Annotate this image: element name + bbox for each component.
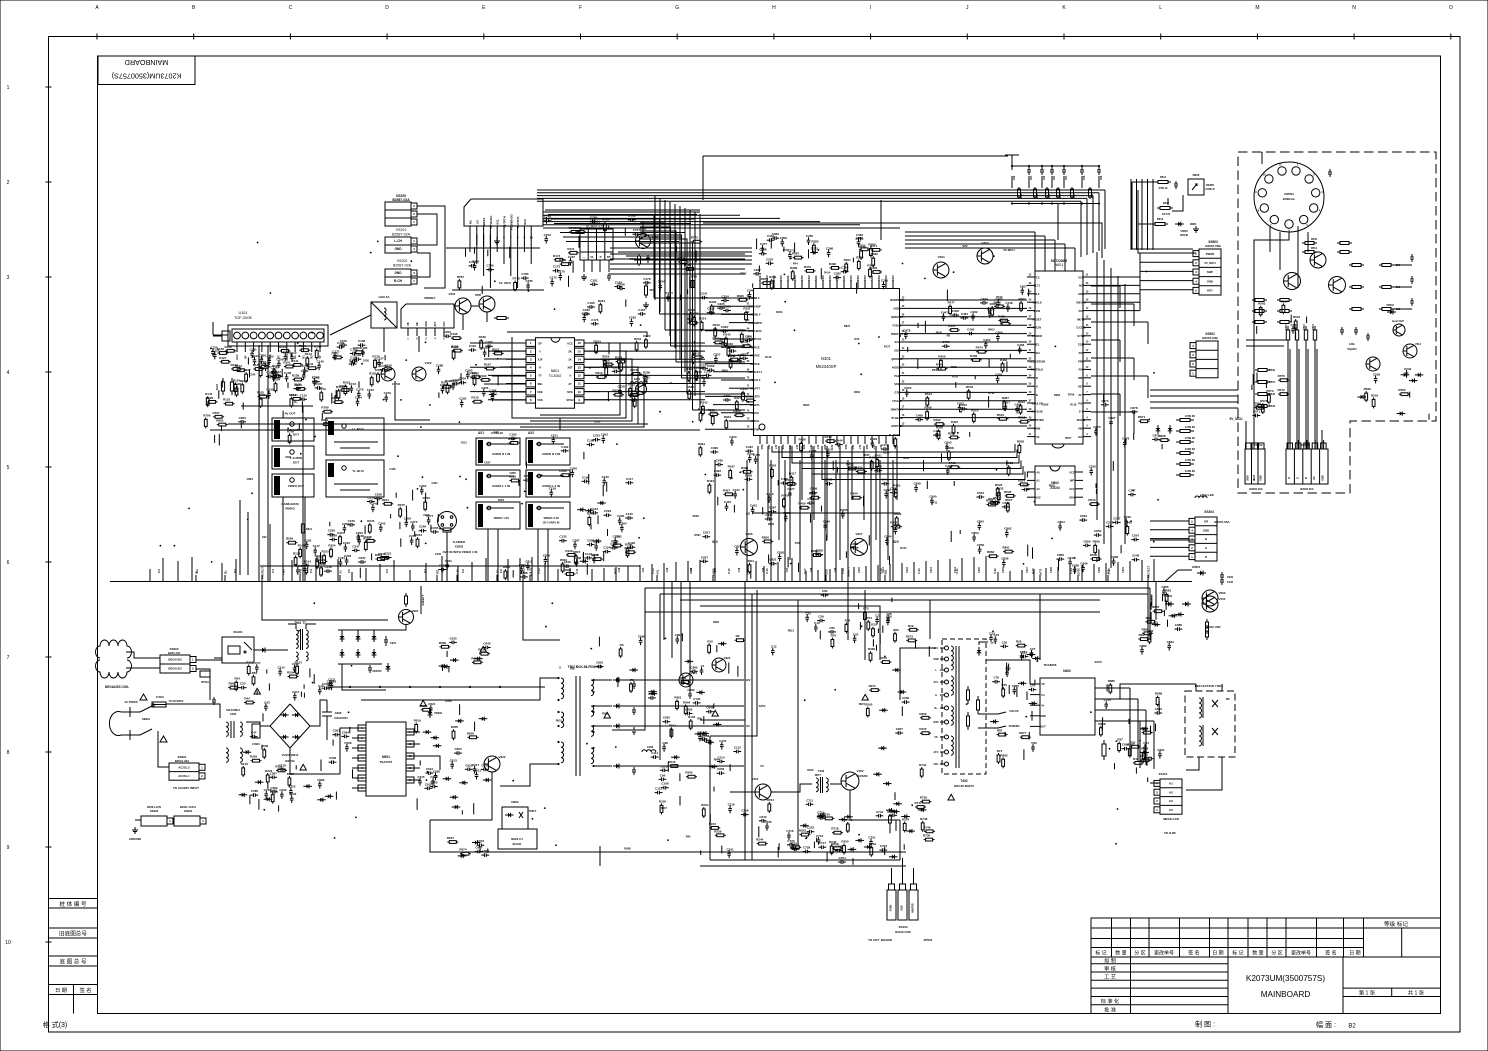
svg-text:C418: C418 [870, 437, 878, 441]
svg-text:TVXXXDF: TVXXXDF [749, 304, 761, 308]
capacitor C262 [421, 487, 423, 490]
wire [826, 535, 828, 542]
wire [946, 290, 948, 301]
svg-text:R474: R474 [976, 346, 984, 350]
svg-text:R821: R821 [306, 528, 313, 531]
svg-text:SYNC: SYNC [1077, 334, 1085, 338]
resistor R125 [258, 396, 260, 398]
svg-text:2: 2 [1156, 799, 1158, 803]
capacitor C615 [419, 778, 421, 781]
capacitor C402 [885, 491, 887, 494]
svg-text:C264: C264 [419, 525, 427, 529]
capacitor C723 [787, 844, 790, 846]
resistor R832 [891, 526, 893, 528]
wire [526, 462, 528, 469]
diode VD554 [1397, 413, 1406, 415]
diode VD624 [431, 737, 440, 739]
capacitor C601 [608, 273, 610, 276]
capacitor C1092 [561, 450, 564, 452]
capacitor C549 [1406, 370, 1408, 373]
resistor R512 [997, 418, 999, 420]
svg-text:R164: R164 [316, 555, 324, 559]
secondary output wires [660, 679, 744, 681]
svg-text:L902: L902 [230, 712, 237, 716]
wire [1133, 433, 1135, 440]
wire bottom loop2 [430, 820, 906, 852]
resistor R540 [1089, 503, 1091, 505]
transistor V511 [1310, 252, 1326, 268]
svg-text:P12: P12 [1035, 435, 1040, 439]
resistor R552 [1373, 397, 1375, 399]
wire [879, 635, 881, 645]
svg-text:C98: C98 [662, 741, 668, 745]
capacitor C911 [876, 617, 878, 620]
diode VD1010 [700, 732, 709, 734]
svg-text:HEAT: HEAT [1253, 474, 1256, 481]
svg-text:R158: R158 [364, 535, 372, 539]
svg-text:TO AC220V INPUT: TO AC220V INPUT [173, 786, 199, 790]
resistor R275 [399, 507, 401, 509]
capacitor C1082 [630, 319, 632, 322]
wire [261, 745, 263, 750]
svg-text:日 期: 日 期 [55, 987, 67, 994]
capacitor C510 [1329, 169, 1331, 172]
resistor R310 [745, 400, 747, 402]
svg-text:C617: C617 [472, 763, 480, 767]
resistor R748 [922, 821, 924, 823]
svg-text:11: 11 [578, 382, 582, 386]
wire [733, 505, 735, 513]
diode VD727 [864, 846, 873, 848]
resistor R407 [723, 493, 725, 495]
wire [682, 677, 684, 682]
svg-text:WP: WP [1070, 479, 1074, 483]
capacitor C1153 [807, 831, 810, 833]
svg-text:TO H.DF: TO H.DF [1164, 831, 1176, 835]
resistor R154 [305, 564, 307, 566]
capacitor C425 [807, 502, 810, 504]
svg-text:C499: C499 [914, 481, 922, 485]
svg-text:B+: B+ [934, 707, 938, 710]
svg-text:R123: R123 [223, 398, 231, 402]
svg-text:C113: C113 [660, 764, 667, 768]
svg-text:H.PULSE: H.PULSE [1031, 410, 1043, 414]
svg-text:C596: C596 [344, 741, 352, 745]
resistor R428 [800, 442, 802, 444]
capacitor C192 [461, 400, 463, 403]
svg-text:C603: C603 [455, 747, 463, 751]
svg-text:R832: R832 [890, 521, 898, 525]
svg-text:C626: C626 [433, 770, 441, 774]
diode VD706 [848, 848, 857, 850]
resistor R915 [872, 627, 874, 629]
svg-text:R74: R74 [997, 749, 1003, 753]
capacitor C401 [890, 492, 893, 494]
svg-text:R841: R841 [747, 559, 755, 563]
resistor R670 [447, 841, 449, 843]
svg-text:C47: C47 [251, 731, 257, 735]
svg-text:YL IN /O: YL IN /O [352, 469, 364, 473]
svg-text:C66: C66 [1100, 175, 1103, 180]
svg-text:C620: C620 [1227, 575, 1234, 579]
svg-text:DEFLECTION YOKE: DEFLECTION YOKE [1195, 684, 1223, 688]
wire [752, 283, 754, 287]
svg-text:R245: R245 [367, 519, 375, 523]
resistor R935 [1130, 746, 1132, 748]
wire [859, 622, 861, 630]
svg-text:R216: R216 [630, 368, 638, 372]
svg-text:C866: C866 [1111, 555, 1119, 559]
svg-text:L: L [192, 658, 194, 662]
resistor R127 [220, 361, 222, 363]
svg-text:AFC: AFC [934, 751, 939, 754]
svg-text:C377: C377 [760, 242, 768, 246]
svg-text:C303: C303 [723, 394, 731, 398]
capacitor C1117 [294, 693, 296, 696]
capacitor C251 [384, 557, 387, 559]
svg-text:R972: R972 [859, 702, 866, 706]
svg-text:VDD: VDD [787, 275, 790, 280]
capacitor C621 [430, 705, 432, 708]
svg-text:FSDUB: FSDUB [893, 323, 902, 327]
diode VD676 [458, 855, 467, 857]
svg-text:A25V: A25V [759, 704, 766, 708]
svg-text:R487: R487 [1002, 396, 1010, 400]
svg-text:R127: R127 [219, 356, 227, 360]
svg-text:R128: R128 [565, 549, 573, 553]
resistor R374 [805, 270, 807, 272]
svg-text:VIF: VIF [407, 322, 410, 326]
svg-text:YSFIHL: YSFIHL [750, 419, 760, 423]
capacitor C436 [715, 464, 718, 466]
resistor R342 [725, 336, 727, 338]
svg-text:REMO: REMO [1206, 183, 1214, 187]
svg-text:1: 1 [1297, 164, 1299, 167]
capacitor C519 [959, 408, 962, 410]
resistor R108 [225, 350, 227, 352]
svg-text:C416: C416 [724, 500, 732, 504]
svg-text:HEATER: HEATER [912, 903, 915, 913]
resistor R518 [1019, 421, 1021, 423]
svg-text:C112: C112 [289, 351, 296, 355]
svg-text:A0: A0 [1036, 470, 1040, 474]
capacitor C253 [346, 557, 348, 560]
svg-text:P-23: P-23 [1032, 568, 1035, 574]
capacitor C319 [707, 312, 710, 314]
svg-text:R104: R104 [688, 715, 696, 719]
capacitor C866 [1113, 558, 1115, 561]
wires into CRT board [1150, 389, 1238, 391]
resistor R613 [1152, 223, 1155, 225]
svg-text:C200: C200 [570, 466, 578, 470]
svg-text:G: G [1296, 477, 1299, 479]
diode VD285 [593, 540, 602, 542]
wire [371, 553, 373, 560]
svg-text:C216: C216 [329, 679, 337, 683]
svg-text:R772: R772 [691, 236, 699, 240]
capacitor C453 [997, 375, 999, 378]
resistor R718 [832, 832, 834, 834]
svg-text:桩 体 编 号: 桩 体 编 号 [59, 900, 86, 908]
wire [303, 693, 305, 698]
wires transformer [500, 678, 559, 700]
svg-text:C192: C192 [561, 445, 569, 449]
capacitor C998 [663, 744, 665, 747]
capacitor C862 [1006, 530, 1008, 533]
capacitor C1055 [347, 524, 350, 526]
svg-text:R252: R252 [799, 829, 807, 833]
diode VD895 [685, 660, 694, 662]
diode VD984 [990, 721, 999, 723]
svg-text:B2003-03A: B2003-03A [1249, 487, 1262, 491]
capacitor C147 [314, 547, 316, 550]
svg-text:C852: C852 [1094, 529, 1102, 533]
capacitor C440 [874, 470, 877, 472]
resistor R1028 [566, 554, 568, 556]
wire [1098, 549, 1100, 560]
svg-text:R616: R616 [768, 522, 775, 526]
svg-text:C60: C60 [1013, 175, 1016, 180]
wire [321, 413, 323, 419]
svg-text:C306: C306 [745, 334, 753, 338]
resistor R643 [669, 765, 671, 767]
svg-text:R925: R925 [602, 711, 609, 715]
wire [166, 704, 220, 718]
svg-text:R689: R689 [1155, 692, 1163, 696]
wire [950, 531, 952, 542]
capacitor C169 [354, 358, 357, 360]
wire [465, 248, 467, 257]
svg-text:23: 23 [1029, 282, 1032, 285]
capacitor C182 [362, 349, 364, 352]
capacitor C250 [367, 501, 370, 503]
capacitor C466 [1019, 346, 1021, 349]
svg-text:4: 4 [1191, 528, 1193, 532]
wire [335, 390, 337, 399]
resistor R1104 [288, 676, 290, 678]
wire [249, 370, 251, 378]
svg-text:C129: C129 [549, 486, 557, 490]
wires up from secondary [663, 582, 665, 641]
wire [713, 787, 715, 792]
resistor R639 [440, 646, 442, 648]
wire [568, 276, 570, 287]
resistor R948 [263, 748, 265, 750]
diode VD590 [317, 799, 326, 801]
capacitor C816 [563, 565, 566, 567]
svg-text:C195: C195 [509, 432, 517, 436]
capacitor C336 [739, 356, 741, 359]
wire [1006, 663, 1008, 675]
svg-text:R327: R327 [734, 396, 742, 400]
svg-text:C296: C296 [423, 513, 430, 517]
capacitor C387 [753, 273, 756, 275]
resistor R572 [1278, 393, 1280, 395]
capacitor C712 [818, 837, 820, 840]
wire [1163, 610, 1165, 616]
capacitor C1073 [553, 270, 556, 272]
svg-text:CBU: CBU [857, 275, 860, 280]
connector XS403 B2010-CON [887, 890, 896, 920]
diode VD745 [873, 773, 882, 775]
capacitor C622 [430, 786, 433, 788]
svg-text:B2587-02A: B2587-02A [392, 233, 411, 237]
svg-text:C444: C444 [835, 439, 843, 443]
shunt reg N903 KIA431 [498, 829, 537, 849]
svg-text:R147: R147 [258, 363, 266, 367]
resistor R942 [1133, 762, 1135, 764]
svg-text:P-18: P-18 [842, 568, 845, 574]
wire [416, 798, 418, 810]
svg-text:R26: R26 [1016, 640, 1022, 644]
svg-text:C100: C100 [693, 697, 701, 701]
svg-text:R569: R569 [693, 514, 700, 518]
capacitor C780 [527, 282, 529, 285]
resistor R776 [678, 261, 680, 263]
wire [1028, 732, 1030, 740]
svg-text:C833: C833 [765, 513, 773, 517]
svg-text:A: A [95, 5, 99, 11]
capacitor C444 [835, 444, 838, 446]
wire [309, 668, 311, 677]
svg-text:XJF: XJF [538, 358, 543, 362]
diode VD404 [1182, 603, 1191, 605]
svg-text:R153: R153 [322, 550, 330, 554]
resistor R1004 [690, 719, 692, 721]
svg-text:5V_MCU: 5V_MCU [499, 281, 511, 285]
resistor R215 [494, 317, 497, 319]
bridge rectifier VC901 [270, 704, 310, 748]
svg-text:标 记: 标 记 [1232, 950, 1243, 957]
capacitor C238 [327, 534, 330, 536]
svg-text:MAINBOARD: MAINBOARD [125, 58, 169, 67]
svg-text:R231: R231 [634, 337, 642, 341]
svg-text:C136: C136 [259, 353, 267, 357]
wire [721, 846, 723, 854]
svg-text:C253: C253 [344, 554, 352, 558]
wire [969, 432, 971, 437]
wires upper right verticals [1130, 179, 1132, 250]
resistor R430 [1206, 625, 1208, 628]
svg-text:签 名: 签 名 [1188, 950, 1199, 957]
wire [606, 482, 608, 492]
svg-text:C307: C307 [713, 353, 721, 357]
wire [240, 424, 242, 428]
svg-text:R94: R94 [1139, 633, 1145, 637]
resistor R417 [790, 475, 792, 477]
svg-text:R533: R533 [1269, 404, 1276, 408]
resistor R223 [634, 397, 636, 399]
svg-text:标 记: 标 记 [1095, 950, 1106, 957]
svg-text:AWS: AWS [1078, 427, 1084, 431]
capacitor C531 [992, 501, 995, 503]
svg-text:R184: R184 [353, 346, 361, 350]
resistor R254 [330, 547, 332, 549]
capacitor C1035 [268, 391, 270, 394]
svg-text:C192: C192 [459, 397, 467, 401]
svg-text:R702: R702 [952, 375, 959, 379]
svg-text:C256: C256 [356, 531, 364, 535]
capacitor C333 [703, 379, 705, 382]
wire [329, 522, 331, 527]
svg-text:底 图 总 号: 底 图 总 号 [59, 958, 86, 966]
svg-text:CONLR: CONLR [1205, 187, 1214, 191]
capacitor C205 [483, 389, 485, 392]
capacitor C416 [726, 503, 728, 506]
capacitor C716 [788, 832, 790, 835]
svg-text:MONITORF: MONITORF [1030, 418, 1045, 422]
transistor V513 [1329, 277, 1346, 294]
svg-text:AUDIO L 1 IN: AUDIO L 1 IN [492, 484, 510, 488]
svg-text:R603: R603 [988, 328, 995, 332]
resistor R163 [344, 385, 346, 387]
svg-text:C41: C41 [642, 567, 645, 572]
diode VD715 [817, 815, 826, 817]
svg-text:VD601: VD601 [1192, 565, 1201, 569]
wire [858, 603, 860, 609]
svg-text:SWF: SWF [1207, 270, 1214, 274]
capacitor C663 [717, 772, 720, 774]
svg-text:R8: R8 [947, 334, 951, 338]
wire [815, 552, 817, 557]
capacitor C833 [765, 518, 768, 520]
svg-text:C251: C251 [384, 552, 392, 556]
svg-text:V902: V902 [498, 755, 505, 759]
svg-text:CL: CL [590, 255, 594, 259]
svg-text:R214: R214 [295, 660, 303, 664]
svg-text:C780: C780 [526, 279, 534, 283]
wire [1095, 489, 1097, 494]
capacitor C873 [1101, 404, 1104, 406]
wire [750, 571, 752, 579]
svg-text:R258: R258 [831, 842, 839, 846]
svg-text:C355: C355 [806, 234, 814, 238]
wire [1023, 749, 1025, 760]
capacitor C307 [715, 356, 717, 359]
svg-text:1: 1 [413, 220, 415, 224]
svg-text:C548: C548 [1132, 554, 1140, 558]
capacitor C1065 [297, 567, 299, 570]
svg-text:BSC25-N0379: BSC25-N0379 [954, 784, 974, 788]
capacitor C499 [915, 484, 917, 487]
IR receiver N603 [1188, 179, 1204, 195]
diode VD637 [450, 659, 459, 661]
svg-text:SCREEN: SCREEN [1009, 724, 1020, 728]
svg-text:更改单号: 更改单号 [1154, 950, 1174, 957]
resistor R1084 [599, 303, 601, 305]
svg-text:COM: COM [1078, 343, 1085, 347]
transistor V303 [977, 248, 993, 264]
svg-text:P-8: P-8 [462, 568, 465, 572]
svg-text:18: 18 [902, 398, 905, 400]
resistor R889 [1142, 632, 1144, 634]
svg-text:FASTBLK: FASTBLK [1031, 368, 1043, 372]
svg-text:PWM: PWM [1034, 427, 1041, 431]
capacitor C435 [780, 482, 783, 484]
resistor R1047 [260, 367, 262, 369]
svg-text:C147: C147 [313, 544, 321, 548]
resistor R642 [686, 776, 688, 778]
svg-text:C253: C253 [807, 826, 815, 830]
capacitor C277 [428, 517, 430, 520]
capacitor C837 [700, 560, 703, 562]
wire [331, 393, 333, 404]
svg-text:13: 13 [409, 742, 412, 746]
diode VD905 [259, 649, 268, 651]
resistor R688 [1100, 726, 1102, 728]
wire [709, 814, 711, 823]
wire [768, 554, 770, 563]
